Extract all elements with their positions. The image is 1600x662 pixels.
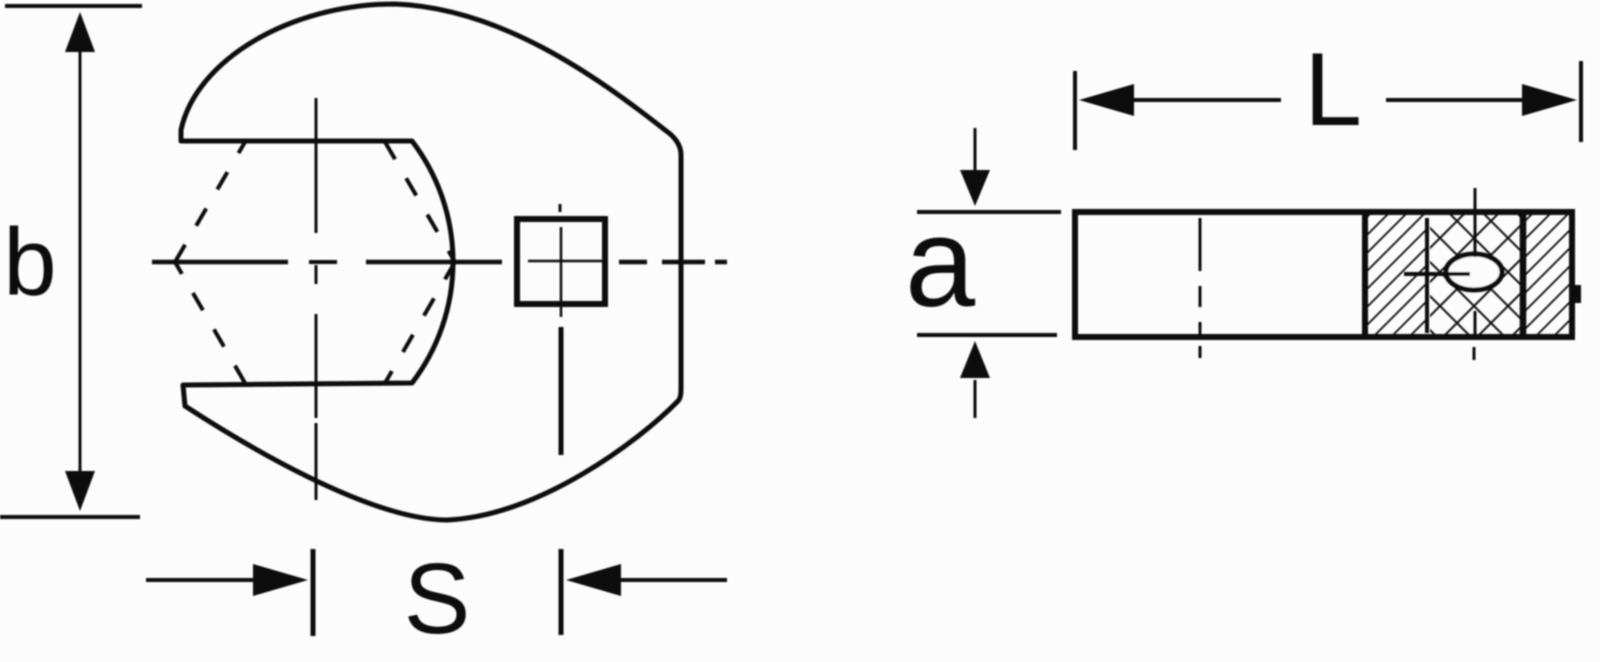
svg-text:a: a — [905, 192, 976, 333]
svg-text:L: L — [1304, 32, 1362, 148]
svg-text:S: S — [404, 543, 471, 655]
svg-text:b: b — [3, 209, 56, 316]
